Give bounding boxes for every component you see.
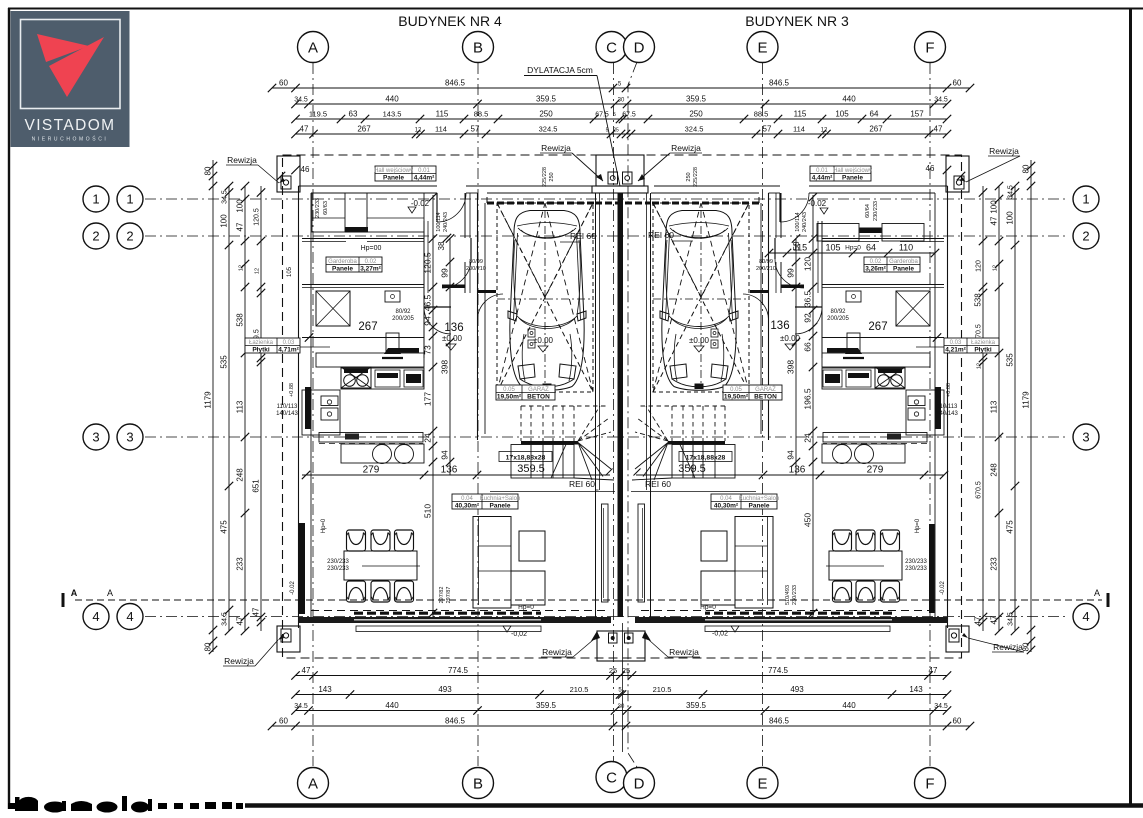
svg-text:200/205: 200/205 bbox=[827, 316, 849, 322]
svg-text:B: B bbox=[473, 39, 483, 56]
svg-text:359.5: 359.5 bbox=[536, 95, 557, 104]
svg-text:0.02: 0.02 bbox=[870, 259, 882, 265]
svg-text:0.01: 0.01 bbox=[418, 168, 430, 174]
garage dashed diagonals bbox=[653, 203, 749, 392]
svg-text:-0,02: -0,02 bbox=[511, 631, 527, 638]
svg-text:12: 12 bbox=[977, 363, 983, 369]
svg-text:Kuchnia+Salon: Kuchnia+Salon bbox=[739, 496, 780, 502]
svg-text:VISTADOM: VISTADOM bbox=[24, 117, 115, 134]
svg-text:3,26m²: 3,26m² bbox=[865, 265, 886, 272]
kitchen stove row bbox=[341, 368, 424, 389]
bottom cut-off lettering bbox=[8, 796, 243, 813]
svg-text:Panele: Panele bbox=[842, 174, 863, 181]
svg-text:200/210: 200/210 bbox=[756, 266, 776, 272]
svg-text:94: 94 bbox=[786, 450, 796, 460]
svg-text:398: 398 bbox=[786, 360, 796, 374]
dimension row bottom 3 (440/359.5) bbox=[295, 710, 947, 712]
svg-text:230/233: 230/233 bbox=[327, 566, 349, 572]
svg-text:E: E bbox=[757, 39, 767, 56]
svg-text:30: 30 bbox=[618, 704, 625, 710]
svg-text:64: 64 bbox=[870, 110, 879, 119]
garage centre dash-dot bbox=[544, 210, 546, 385]
svg-text:47: 47 bbox=[974, 616, 983, 625]
frame bottom thick rule bbox=[245, 803, 1143, 808]
svg-text:100/114: 100/114 bbox=[436, 212, 442, 231]
svg-text:67.5: 67.5 bbox=[595, 112, 609, 119]
bathroom shower (hatched) bbox=[316, 291, 350, 326]
svg-text:40,30m²: 40,30m² bbox=[455, 502, 480, 509]
svg-text:846.5: 846.5 bbox=[445, 79, 466, 88]
stairs left unit bbox=[511, 406, 614, 480]
interior wall hall-corridor bbox=[821, 221, 823, 358]
svg-text:3: 3 bbox=[92, 430, 99, 445]
svg-text:3: 3 bbox=[1082, 430, 1089, 445]
door arc kitchen bbox=[424, 307, 451, 334]
svg-text:230/233: 230/233 bbox=[315, 198, 321, 218]
svg-text:80: 80 bbox=[204, 166, 213, 175]
svg-text:+0.88: +0.88 bbox=[946, 383, 952, 397]
svg-text:113: 113 bbox=[990, 400, 999, 413]
kitchen stove row bbox=[822, 368, 905, 389]
top exterior wall bbox=[809, 185, 948, 187]
stair nosing (thick) bbox=[521, 441, 578, 445]
svg-text:Łazienka: Łazienka bbox=[249, 340, 274, 346]
side wall window living (black) bbox=[929, 524, 935, 613]
rewizja box porch right bbox=[625, 633, 634, 643]
kitchen sink cabinet bbox=[302, 390, 340, 435]
svg-text:25: 25 bbox=[609, 666, 617, 675]
party wall (black) bbox=[618, 193, 624, 617]
svg-text:Rewizja: Rewizja bbox=[989, 146, 1019, 156]
svg-text:30: 30 bbox=[618, 98, 625, 104]
svg-text:230/233: 230/233 bbox=[905, 559, 927, 565]
room table bathroom left bbox=[245, 338, 300, 353]
right dimension column outer (1179) bbox=[1030, 160, 1032, 652]
svg-text:651: 651 bbox=[252, 479, 261, 493]
svg-text:46: 46 bbox=[926, 164, 935, 173]
svg-text:324.5: 324.5 bbox=[685, 125, 704, 134]
svg-text:34.5: 34.5 bbox=[934, 703, 948, 710]
svg-text:177: 177 bbox=[423, 392, 433, 406]
room table hall right bbox=[810, 166, 871, 181]
car left garage bbox=[508, 211, 586, 391]
axis line 2 bbox=[145, 235, 1068, 237]
office chair bbox=[847, 333, 860, 353]
svg-text:440: 440 bbox=[385, 701, 399, 710]
svg-text:C: C bbox=[606, 39, 617, 56]
svg-text:60: 60 bbox=[279, 717, 288, 726]
svg-text:Hp=00: Hp=00 bbox=[361, 245, 382, 252]
svg-text:47: 47 bbox=[934, 125, 943, 134]
svg-text:REI 60: REI 60 bbox=[569, 479, 595, 489]
svg-text:440: 440 bbox=[842, 701, 856, 710]
hall closet bbox=[312, 193, 345, 232]
axis line 3 bbox=[145, 436, 1068, 438]
svg-text:538: 538 bbox=[236, 313, 245, 327]
party wall lower black continuation bbox=[619, 490, 623, 617]
garderoba bottom wall bbox=[302, 284, 424, 286]
svg-text:±0.00: ±0.00 bbox=[689, 336, 710, 345]
car body outline bbox=[660, 211, 738, 391]
dimension row top 3 (detail) bbox=[295, 118, 947, 120]
svg-text:80/92: 80/92 bbox=[830, 309, 846, 315]
garage side wall bbox=[768, 193, 770, 440]
svg-text:493: 493 bbox=[438, 685, 452, 694]
svg-text:4: 4 bbox=[92, 609, 99, 624]
rewizja bottom-left bbox=[277, 626, 300, 652]
room table hall left bbox=[375, 166, 436, 181]
stair dashed winder fan upper bbox=[578, 406, 600, 441]
svg-text:140/143: 140/143 bbox=[276, 411, 298, 417]
svg-text:110/113: 110/113 bbox=[937, 404, 958, 410]
svg-text:279: 279 bbox=[867, 465, 884, 476]
dimension row top 2 (440/359.5) bbox=[295, 103, 947, 105]
svg-text:359.5: 359.5 bbox=[686, 95, 707, 104]
svg-text:136: 136 bbox=[441, 465, 458, 476]
svg-text:196.5: 196.5 bbox=[803, 388, 813, 410]
svg-text:3: 3 bbox=[126, 430, 133, 445]
kitchen sink cabinet bbox=[906, 390, 944, 435]
axis bubble 2 right bbox=[1073, 223, 1099, 249]
svg-text:63: 63 bbox=[349, 110, 358, 119]
svg-text:Hall wejściowy: Hall wejściowy bbox=[374, 168, 413, 174]
frame top border bbox=[8, 8, 1143, 10]
svg-text:4: 4 bbox=[1082, 609, 1089, 624]
stair upper flight dashed treads bbox=[724, 406, 726, 441]
svg-text:0.04: 0.04 bbox=[720, 496, 732, 502]
svg-text:0.02: 0.02 bbox=[365, 259, 377, 265]
rewizja box porch left bbox=[609, 633, 618, 643]
svg-text:34.5: 34.5 bbox=[1008, 612, 1015, 626]
svg-text:60: 60 bbox=[953, 79, 962, 88]
bottom exterior wall bbox=[635, 617, 948, 623]
svg-text:47: 47 bbox=[990, 216, 999, 225]
svg-text:Rewizja: Rewizja bbox=[671, 143, 701, 153]
axis bubble F top bbox=[915, 32, 946, 63]
svg-text:Płytki: Płytki bbox=[974, 346, 992, 353]
svg-text:38: 38 bbox=[437, 241, 446, 250]
svg-text:535: 535 bbox=[220, 355, 229, 369]
svg-text:Rewizja: Rewizja bbox=[227, 155, 257, 165]
svg-text:100: 100 bbox=[1006, 211, 1015, 225]
interior wall corridor-garage side bbox=[464, 193, 466, 238]
TV cabinet on party wall bbox=[638, 504, 645, 602]
svg-text:233: 233 bbox=[990, 557, 999, 571]
axis bubble 4 left pair bbox=[83, 604, 109, 630]
room table salon right bbox=[711, 494, 777, 509]
svg-text:250: 250 bbox=[689, 110, 703, 119]
svg-text:110: 110 bbox=[899, 243, 913, 253]
svg-text:115: 115 bbox=[436, 110, 449, 119]
svg-text:Hp=0: Hp=0 bbox=[915, 518, 921, 533]
svg-text:143.5: 143.5 bbox=[383, 110, 402, 119]
svg-text:F: F bbox=[925, 775, 934, 792]
svg-text:67.5: 67.5 bbox=[622, 112, 636, 119]
svg-text:240/243: 240/243 bbox=[443, 212, 449, 232]
svg-text:47: 47 bbox=[929, 666, 938, 675]
room table garage left bbox=[496, 385, 555, 400]
car body outline bbox=[508, 211, 586, 391]
dining chairs bbox=[347, 530, 366, 551]
svg-text:12: 12 bbox=[255, 268, 261, 274]
desk bbox=[385, 291, 400, 302]
svg-text:34.5: 34.5 bbox=[294, 703, 308, 710]
svg-text:250: 250 bbox=[549, 172, 555, 181]
svg-text:475: 475 bbox=[1006, 520, 1015, 534]
svg-text:250: 250 bbox=[686, 172, 692, 181]
frame right border bbox=[1129, 8, 1132, 807]
left dimension column 4 bbox=[260, 186, 262, 631]
svg-text:57: 57 bbox=[763, 125, 772, 134]
party wall chimney top block bbox=[596, 155, 644, 186]
axis bubble 3 left pair bbox=[83, 424, 109, 450]
stair lower flight treads bbox=[672, 445, 735, 479]
svg-text:47: 47 bbox=[236, 616, 245, 625]
svg-text:200/205: 200/205 bbox=[392, 316, 414, 322]
svg-text:210.5: 210.5 bbox=[570, 685, 589, 694]
axis bubble B bottom bbox=[463, 768, 494, 799]
svg-text:3,27m²: 3,27m² bbox=[360, 265, 381, 272]
svg-text:Płytki: Płytki bbox=[252, 346, 270, 353]
svg-text:0.04: 0.04 bbox=[461, 496, 473, 502]
axis line F bbox=[929, 63, 931, 766]
svg-text:267: 267 bbox=[868, 321, 887, 333]
svg-text:4,44m²: 4,44m² bbox=[414, 174, 435, 181]
axis line 1 bbox=[145, 198, 1068, 200]
svg-text:100: 100 bbox=[990, 200, 999, 214]
bottom window roller dashed band bbox=[705, 612, 892, 615]
dining table bbox=[344, 551, 417, 580]
svg-text:A: A bbox=[308, 39, 318, 56]
svg-text:±0.00: ±0.00 bbox=[780, 334, 801, 343]
stairs right unit bbox=[632, 406, 735, 480]
svg-text:359.5: 359.5 bbox=[678, 463, 706, 475]
svg-text:REI 60: REI 60 bbox=[648, 230, 674, 240]
svg-text:66: 66 bbox=[803, 342, 813, 352]
svg-text:774.5: 774.5 bbox=[448, 666, 469, 675]
svg-text:846.5: 846.5 bbox=[769, 79, 790, 88]
left dimension column 2 bbox=[228, 186, 230, 631]
svg-text:225/228: 225/228 bbox=[693, 167, 699, 187]
svg-text:47: 47 bbox=[300, 125, 309, 134]
door arc garage corridor bbox=[478, 294, 504, 320]
svg-text:0.01: 0.01 bbox=[816, 168, 828, 174]
svg-text:B: B bbox=[473, 775, 483, 792]
dining chairs bbox=[881, 530, 900, 551]
roof overhang outline bbox=[283, 155, 962, 658]
svg-text:64: 64 bbox=[866, 243, 876, 253]
interior texts right unit bbox=[631, 167, 959, 637]
svg-text:99: 99 bbox=[786, 268, 796, 278]
svg-text:12: 12 bbox=[239, 265, 245, 271]
svg-text:46: 46 bbox=[301, 165, 310, 174]
svg-text:24: 24 bbox=[803, 433, 813, 443]
svg-text:225/228: 225/228 bbox=[542, 167, 548, 187]
svg-text:80: 80 bbox=[1022, 164, 1031, 173]
svg-text:Łazienka: Łazienka bbox=[971, 340, 996, 346]
garage front thick dashed (door) bbox=[487, 202, 595, 205]
svg-text:D: D bbox=[634, 775, 645, 792]
svg-text:248: 248 bbox=[236, 468, 245, 482]
hall-garderoba wall bbox=[822, 238, 944, 240]
kitchen counter top bbox=[822, 353, 930, 367]
svg-text:113: 113 bbox=[236, 400, 245, 413]
bathroom fixtures bbox=[321, 396, 338, 406]
axis line B bbox=[477, 63, 479, 766]
svg-text:DYLATACJA 5cm: DYLATACJA 5cm bbox=[527, 65, 593, 75]
stair nosing (thick) bbox=[668, 441, 725, 445]
svg-text:REI 60: REI 60 bbox=[570, 231, 596, 241]
rewizja bottom-right bbox=[946, 626, 969, 652]
svg-text:NIERUCHOMOŚCI: NIERUCHOMOŚCI bbox=[32, 135, 109, 143]
svg-text:233: 233 bbox=[236, 557, 245, 571]
garage parking dashed box bbox=[497, 203, 593, 392]
svg-text:230/233: 230/233 bbox=[905, 566, 927, 572]
party wall lower flank lines bbox=[596, 489, 599, 491]
svg-text:BETON: BETON bbox=[754, 393, 777, 400]
exterior side wall bbox=[298, 186, 300, 628]
svg-text:120.5: 120.5 bbox=[254, 208, 261, 226]
svg-text:230/233: 230/233 bbox=[792, 585, 798, 605]
axis line A bbox=[312, 63, 314, 766]
svg-text:535: 535 bbox=[1006, 353, 1015, 367]
desk bbox=[846, 291, 861, 302]
svg-text:Panele: Panele bbox=[383, 174, 404, 181]
left dimension column outer (1179) bbox=[212, 160, 214, 652]
svg-text:34.5: 34.5 bbox=[1008, 185, 1015, 199]
rewizja top-right bbox=[946, 156, 969, 192]
dimension row bottom 4 (846.5) bbox=[272, 725, 970, 727]
axis line D bbox=[628, 62, 637, 767]
svg-text:Hp=0: Hp=0 bbox=[321, 518, 327, 533]
svg-text:210.5: 210.5 bbox=[653, 685, 672, 694]
room table garderoba right bbox=[864, 257, 920, 272]
garage/party flank wall bbox=[595, 193, 597, 617]
kitchen island with sinks bbox=[822, 444, 905, 463]
svg-text:17x18,88x28: 17x18,88x28 bbox=[506, 455, 546, 462]
svg-text:Rewizja: Rewizja bbox=[542, 647, 572, 657]
room table bathroom right bbox=[944, 338, 999, 353]
axis bubble C top bbox=[596, 32, 627, 63]
door arc garage corridor bbox=[743, 294, 769, 320]
room table garage right bbox=[723, 385, 782, 400]
svg-text:Hall wejściowy: Hall wejściowy bbox=[833, 168, 872, 174]
dining table bbox=[829, 551, 902, 580]
svg-text:C: C bbox=[606, 769, 617, 786]
svg-text:670.5: 670.5 bbox=[976, 481, 983, 499]
svg-text:143: 143 bbox=[318, 685, 332, 694]
svg-text:25: 25 bbox=[622, 666, 630, 675]
garage/party flank wall bbox=[650, 193, 652, 617]
garage door dashed centre segment bbox=[595, 202, 651, 205]
side wall window (black) bbox=[305, 387, 311, 429]
garage side wall bbox=[477, 193, 479, 440]
bottom window roller dashed band bbox=[354, 612, 541, 615]
svg-text:Panele: Panele bbox=[332, 265, 353, 272]
svg-text:143: 143 bbox=[909, 685, 923, 694]
bottom window glazing line bbox=[354, 619, 541, 621]
hall closet bbox=[817, 224, 859, 242]
right dimension column 2 bbox=[1014, 186, 1016, 631]
axis bubble A top bbox=[298, 32, 329, 63]
svg-text:0.03: 0.03 bbox=[950, 340, 962, 346]
svg-text:-0.02: -0.02 bbox=[808, 199, 827, 208]
svg-text:40,30m²: 40,30m² bbox=[714, 502, 739, 509]
stair dashed winder fan upper bbox=[646, 406, 668, 441]
svg-text:47: 47 bbox=[990, 615, 999, 624]
side wall window (black) bbox=[935, 387, 941, 429]
svg-text:BUDYNEK NR 3: BUDYNEK NR 3 bbox=[745, 13, 849, 29]
svg-text:248: 248 bbox=[990, 463, 999, 477]
svg-text:114: 114 bbox=[793, 125, 805, 134]
svg-text:105: 105 bbox=[287, 266, 293, 277]
svg-text:Garderoba: Garderoba bbox=[328, 259, 357, 265]
axis bubble 4 right bbox=[1073, 604, 1099, 630]
svg-text:-0.02: -0.02 bbox=[290, 581, 296, 595]
garderoba bottom wall bbox=[822, 284, 944, 286]
svg-text:297/87: 297/87 bbox=[446, 587, 452, 604]
axis bubble 1 left pair bbox=[83, 186, 109, 212]
svg-text:94: 94 bbox=[440, 450, 450, 460]
bottom window glazing line bbox=[705, 619, 892, 621]
svg-text:A: A bbox=[71, 588, 78, 598]
svg-text:Garderoba: Garderoba bbox=[889, 259, 918, 265]
svg-text:80/99: 80/99 bbox=[759, 259, 773, 265]
svg-text:120: 120 bbox=[803, 257, 813, 271]
svg-text:267: 267 bbox=[358, 321, 377, 333]
svg-text:359.5: 359.5 bbox=[686, 701, 707, 710]
svg-text:440: 440 bbox=[842, 95, 856, 104]
door arc kitchen bbox=[795, 307, 822, 334]
svg-text:100/114: 100/114 bbox=[795, 212, 801, 231]
sofa bbox=[473, 517, 511, 609]
svg-text:4: 4 bbox=[126, 609, 133, 624]
svg-text:73: 73 bbox=[423, 345, 433, 355]
axis bubble A bottom bbox=[298, 768, 329, 799]
living furniture left unit bbox=[311, 504, 608, 611]
section line A-A bbox=[63, 588, 1108, 607]
dimension row bottom 1 (774.5) bbox=[295, 675, 947, 677]
svg-text:Rewizja: Rewizja bbox=[669, 647, 699, 657]
svg-text:60: 60 bbox=[279, 79, 288, 88]
kitchen counter top bbox=[316, 353, 424, 367]
svg-text:34.5: 34.5 bbox=[934, 97, 948, 104]
right dimension column 4 bbox=[982, 186, 984, 631]
svg-text:774.5: 774.5 bbox=[768, 666, 789, 675]
svg-text:2: 2 bbox=[1082, 229, 1089, 244]
living lintel dashed bbox=[311, 610, 607, 612]
exterior side wall bbox=[947, 186, 949, 628]
svg-text:200/210: 200/210 bbox=[466, 266, 486, 272]
room table garderoba left bbox=[326, 257, 382, 272]
svg-text:19,50m²: 19,50m² bbox=[497, 393, 522, 400]
svg-text:80/99: 80/99 bbox=[469, 259, 483, 265]
coffee table bbox=[701, 531, 727, 561]
svg-text:136: 136 bbox=[444, 322, 463, 334]
svg-text:Kuchnia+Salon: Kuchnia+Salon bbox=[480, 496, 521, 502]
dimension row top 1 (846.5) bbox=[272, 87, 970, 89]
svg-text:105: 105 bbox=[835, 110, 849, 119]
office chair bbox=[386, 333, 399, 353]
svg-text:475: 475 bbox=[220, 520, 229, 534]
svg-text:±0.00: ±0.00 bbox=[442, 334, 463, 343]
svg-text:1179: 1179 bbox=[204, 391, 213, 409]
bathroom shower (hatched) bbox=[896, 291, 930, 326]
svg-text:4,21m²: 4,21m² bbox=[945, 346, 966, 353]
svg-text:D: D bbox=[634, 39, 645, 56]
bathroom fixtures bbox=[908, 396, 925, 406]
svg-text:Hp=0: Hp=0 bbox=[700, 604, 716, 611]
